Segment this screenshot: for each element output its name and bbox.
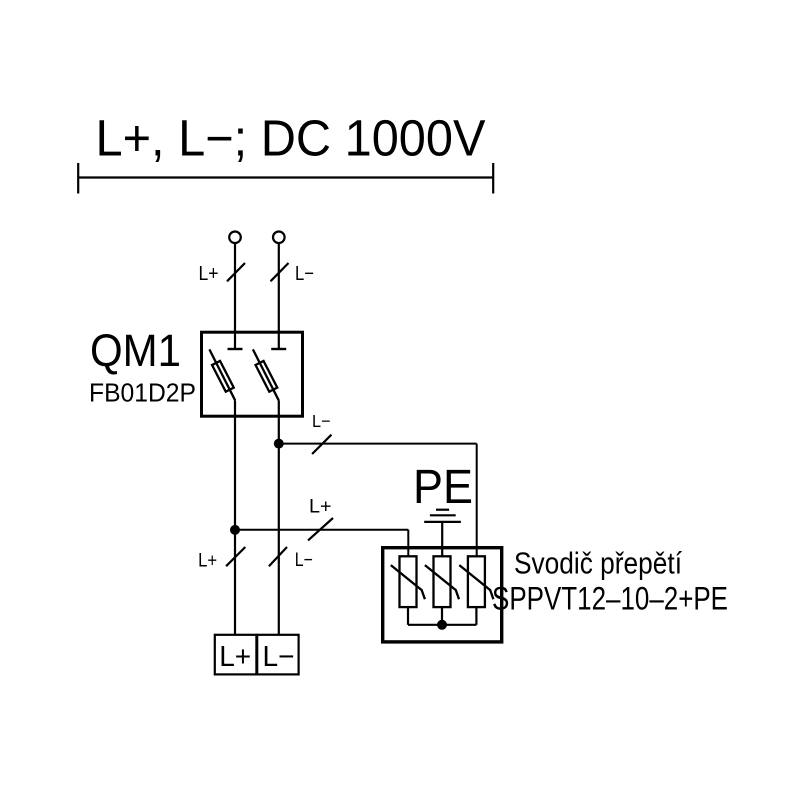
- svg-text:PE: PE: [413, 461, 473, 514]
- QM1 pole2 fixed contact: [271, 348, 286, 350]
- QM1 pole1 fuse body: [212, 361, 234, 392]
- svg-text:L+, L−; DC 1000V: L+, L−; DC 1000V: [96, 110, 486, 167]
- terminal circle L-: [273, 232, 285, 244]
- QM1 pole1 fuse blade: [209, 349, 235, 400]
- varistor 3 arrow: [459, 565, 493, 599]
- wire L- branch horizontal: [279, 443, 477, 445]
- slash mark lower L-: [269, 547, 287, 566]
- svg-text:L−: L−: [312, 411, 331, 431]
- DC bus dimension line: [78, 163, 493, 194]
- wire L+ branch vertical: [407, 530, 409, 557]
- varistor 1 arrow: [391, 565, 425, 599]
- varistor 1 body: [400, 556, 417, 607]
- svg-text:L+: L+: [198, 550, 217, 572]
- junction node L+ branch: [230, 525, 240, 535]
- svg-text:L+: L+: [219, 641, 251, 673]
- slash mark on L- wire: [271, 263, 289, 281]
- wire L- terminal to QM1: [278, 243, 280, 349]
- svg-text:L−: L−: [295, 549, 313, 571]
- svg-text:L−: L−: [295, 263, 314, 285]
- wire L+ QM1 to terminal block: [234, 400, 236, 634]
- wire L- branch vertical: [476, 444, 478, 557]
- svg-text:L+: L+: [199, 263, 219, 285]
- fuse-switch QM1 box: [202, 332, 303, 416]
- varistor 3 body: [468, 556, 485, 607]
- varistor 3 bottom stub: [475, 607, 477, 625]
- junction node L- branch: [274, 439, 284, 449]
- terminal circle L+: [229, 232, 241, 244]
- terminal block L- box: [257, 635, 298, 675]
- varistor 2 arrow: [425, 565, 459, 599]
- terminal block L+ box: [215, 635, 257, 675]
- slash mark on L+ branch: [308, 518, 333, 540]
- earth ground symbol PE: [424, 510, 461, 557]
- svg-text:L−: L−: [263, 641, 295, 673]
- svg-text:L+: L+: [309, 496, 332, 518]
- wire L+ branch horizontal: [235, 529, 408, 531]
- slash mark on L- branch: [312, 435, 331, 454]
- svg-text:Svodič přepětí: Svodič přepětí: [514, 546, 682, 581]
- svg-text:SPPVT12–10–2+PE: SPPVT12–10–2+PE: [492, 581, 728, 617]
- varistor 2 bottom stub: [441, 607, 443, 625]
- surge arrester bottom bus: [408, 624, 476, 626]
- QM1 pole2 fuse body: [256, 361, 278, 392]
- wire L+ terminal to QM1: [234, 243, 236, 349]
- svg-text:FB01D2P: FB01D2P: [89, 378, 196, 408]
- QM1 pole1 fixed contact: [228, 348, 243, 350]
- slash mark on L+ wire: [227, 263, 245, 281]
- QM1 pole2 fuse blade: [253, 349, 279, 400]
- wire L- QM1 to terminal block: [278, 400, 280, 634]
- varistor 2 body: [434, 556, 451, 607]
- slash mark lower L+: [226, 547, 245, 566]
- junction node surge bus: [437, 620, 447, 630]
- surge arrester box: [383, 548, 502, 642]
- svg-text:QM1: QM1: [90, 325, 181, 376]
- varistor 1 bottom stub: [407, 607, 409, 625]
